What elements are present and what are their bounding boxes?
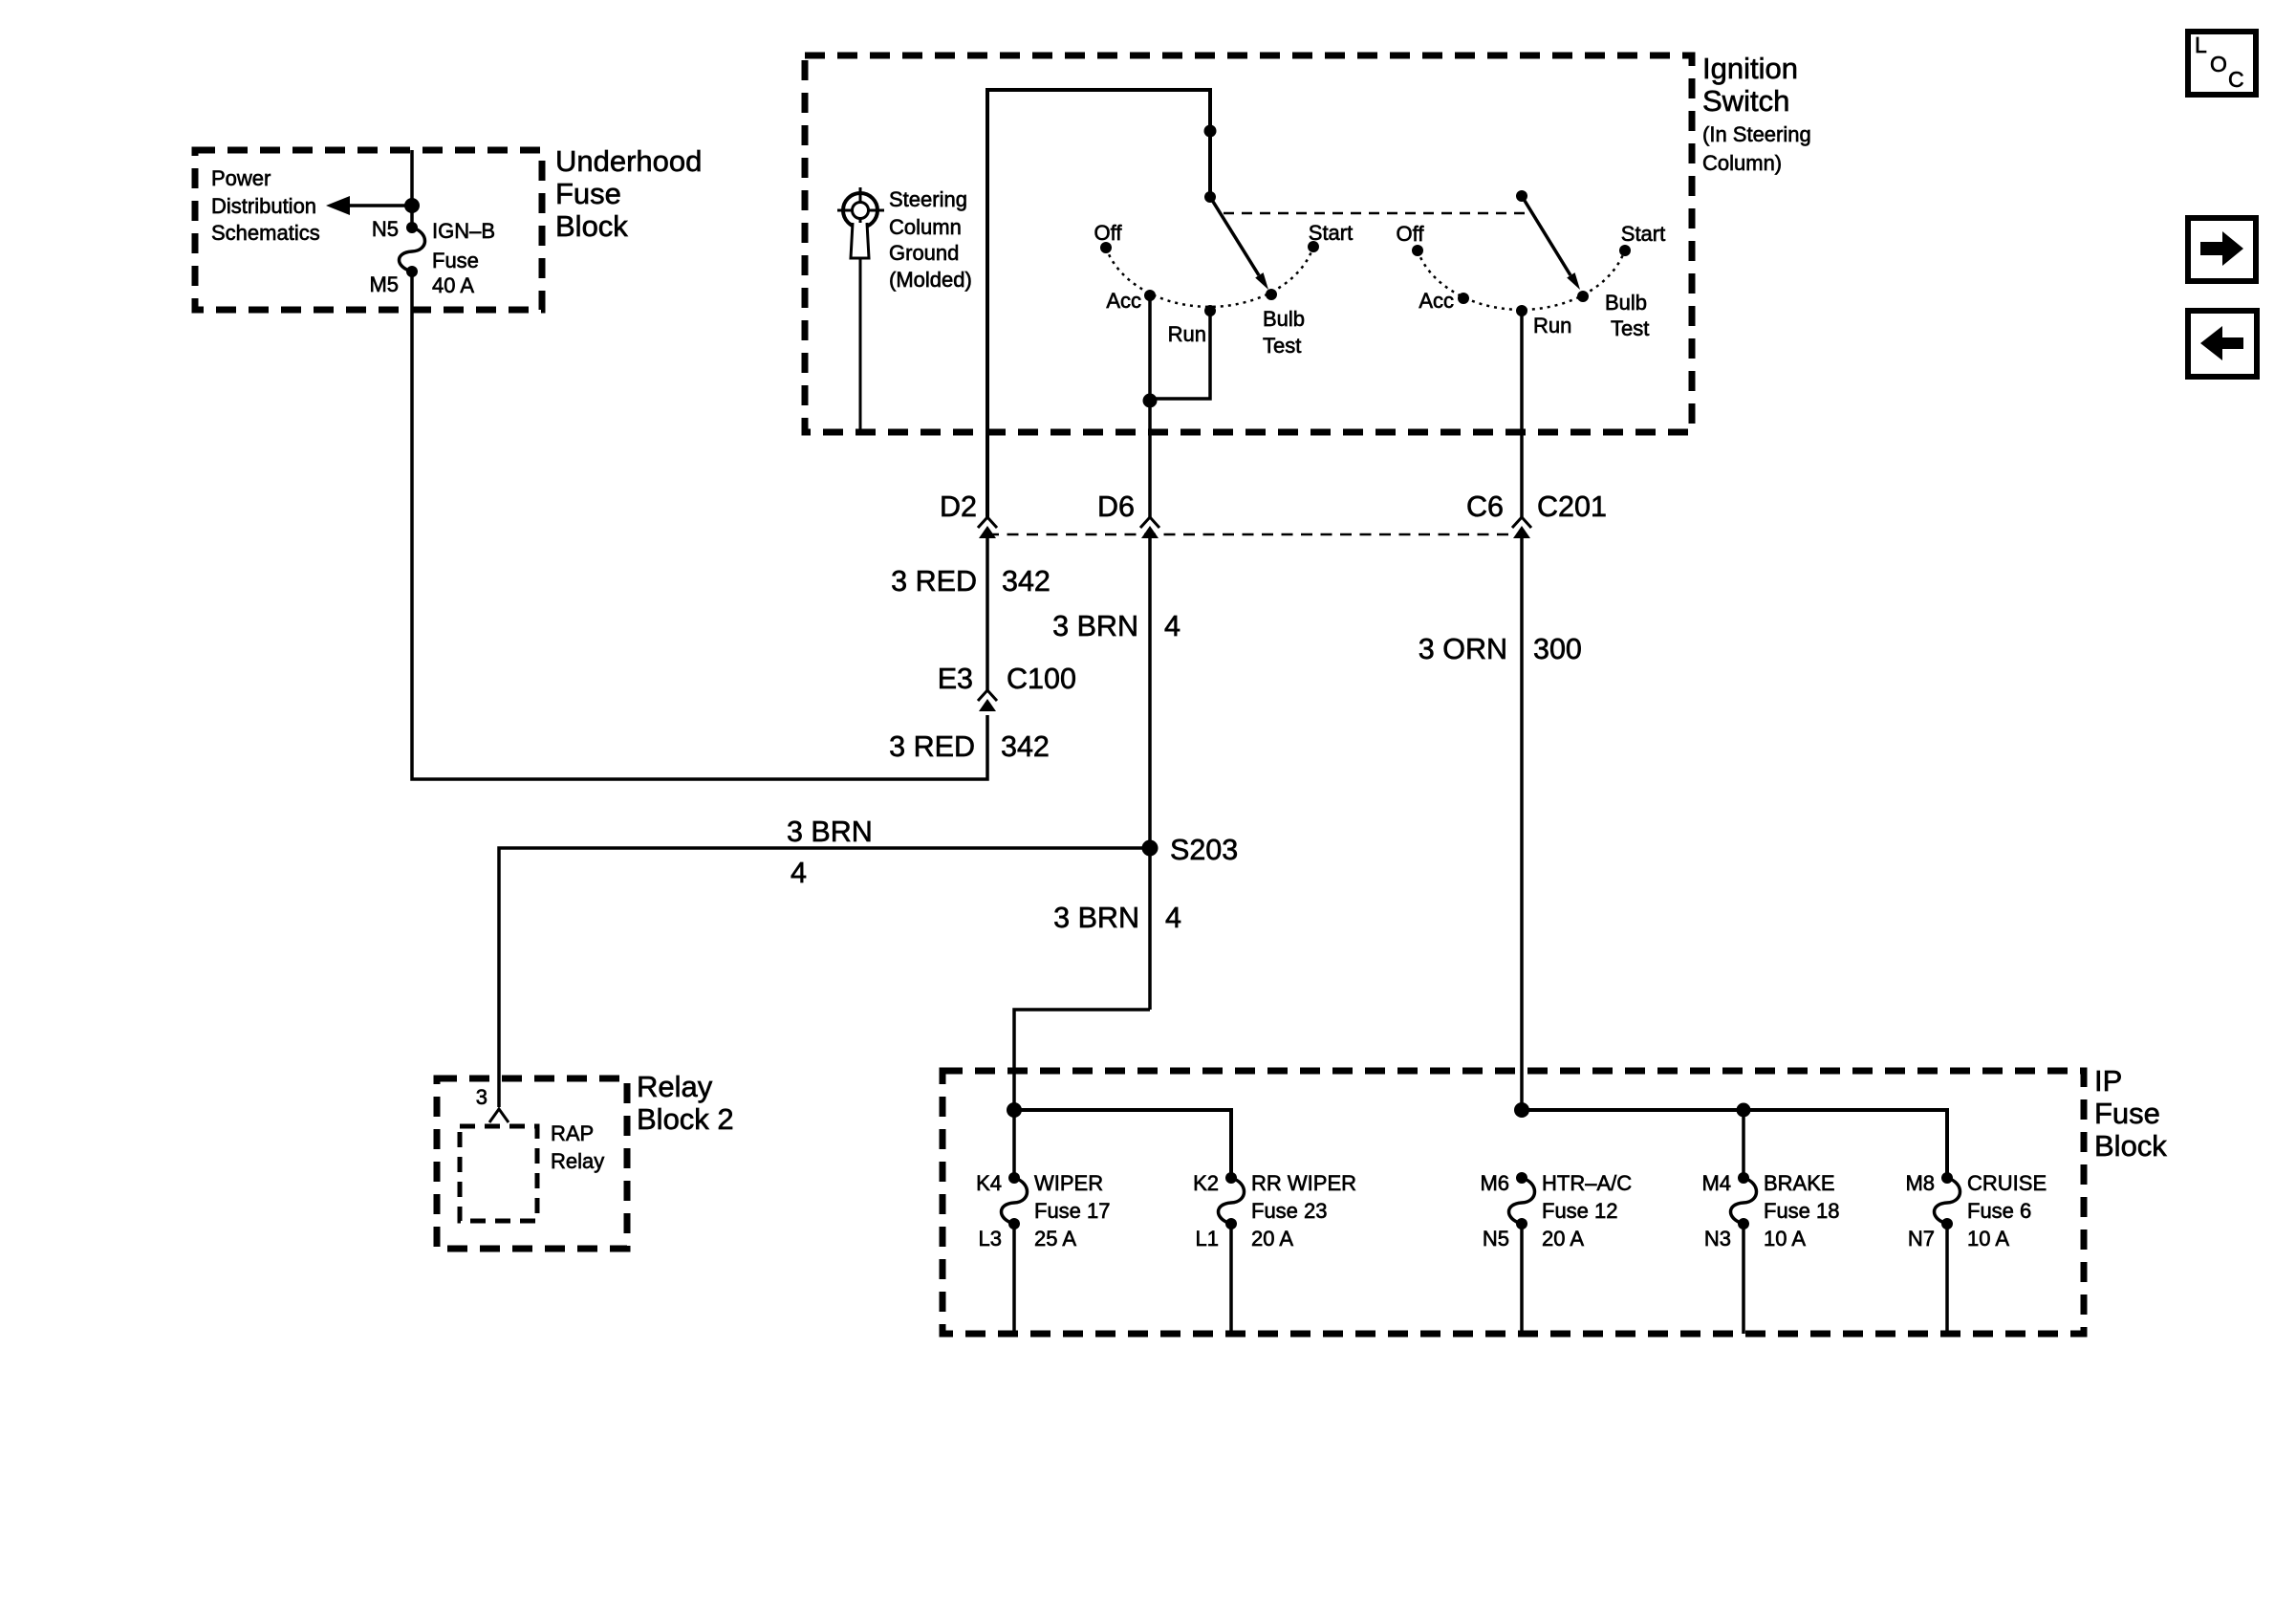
svg-text:10 A: 10 A <box>1967 1227 2009 1251</box>
switch 2 contact Off <box>1412 245 1423 256</box>
svg-text:(Molded): (Molded) <box>889 268 972 292</box>
connector separation line C201 (dashed) <box>987 533 1522 536</box>
svg-text:M5: M5 <box>369 272 399 296</box>
svg-text:O: O <box>2210 52 2227 76</box>
switch 1 contact Start <box>1308 241 1319 252</box>
svg-text:Schematics: Schematics <box>211 221 320 245</box>
svg-text:4: 4 <box>1164 610 1180 642</box>
svg-text:C: C <box>2228 67 2244 92</box>
svg-text:Fuse 17: Fuse 17 <box>1034 1199 1111 1223</box>
switch 2 movable arm with arrow to Bulb Test <box>1522 196 1570 275</box>
svg-text:RAP: RAP <box>551 1121 594 1145</box>
wire: D6 down to splice S203 <box>1148 537 1152 1010</box>
wire: HTR&#8211;A/C fuse output <box>1520 1224 1524 1334</box>
svg-text:10 A: 10 A <box>1764 1227 1806 1251</box>
svg-text:BRAKE: BRAKE <box>1764 1171 1835 1195</box>
svg-text:Block: Block <box>555 209 628 243</box>
svg-text:RR WIPER: RR WIPER <box>1251 1171 1356 1195</box>
svg-text:Fuse 12: Fuse 12 <box>1542 1199 1618 1223</box>
node: switch 1 pivot <box>1204 191 1216 203</box>
connector D2 at C201 <box>978 517 997 528</box>
fuse WIPER (K4-L3) <box>1002 1178 1028 1224</box>
svg-text:K4: K4 <box>976 1171 1002 1195</box>
mechanical link (dashed) between switch arms <box>1224 212 1529 215</box>
svg-text:40 A: 40 A <box>432 273 474 297</box>
svg-text:M6: M6 <box>1480 1171 1509 1195</box>
svg-text:N5: N5 <box>372 217 399 241</box>
svg-text:Relay: Relay <box>637 1070 713 1103</box>
connector E3 at C100 <box>978 690 997 701</box>
svg-text:N5: N5 <box>1483 1227 1509 1251</box>
Underhood Fuse Block (dashed outline) <box>195 150 542 310</box>
svg-text:Off: Off <box>1094 221 1123 245</box>
wire: Run contact of switch 2 down to C6 <box>1520 311 1524 517</box>
svg-text:342: 342 <box>1002 565 1051 598</box>
wire: feed down to WIPER fuse <box>1012 1110 1016 1178</box>
svg-text:Run: Run <box>1168 322 1206 346</box>
svg-text:Start: Start <box>1621 222 1665 246</box>
icon: back arrow box <box>2188 311 2257 377</box>
node: wire joint above switch 1 <box>1204 125 1217 138</box>
switch 2 contact Acc <box>1458 293 1469 304</box>
svg-text:Bulb: Bulb <box>1605 291 1647 315</box>
connector D6 at C201 <box>1140 517 1159 528</box>
wire: ignition feed from D2 up and over to switch pivot <box>987 90 1210 517</box>
svg-text:E3: E3 <box>938 663 973 695</box>
wire: Acc contact down to D6 <box>1148 295 1152 517</box>
svg-text:WIPER: WIPER <box>1034 1171 1103 1195</box>
Ignition Switch (dashed outline) <box>805 55 1692 432</box>
svg-text:Acc: Acc <box>1419 289 1454 313</box>
switch 1 position arc (dotted) <box>1106 247 1313 307</box>
svg-text:Block: Block <box>2094 1129 2167 1163</box>
connector: terminal 3 chevron <box>489 1109 509 1122</box>
svg-text:3 ORN: 3 ORN <box>1419 633 1507 665</box>
svg-text:C100: C100 <box>1007 663 1076 695</box>
svg-text:Ground: Ground <box>889 241 959 265</box>
switch 1 contact Bulb Test <box>1266 289 1277 300</box>
switch 2 contact Run <box>1516 305 1527 316</box>
fuse CRUISE (M8-N7) <box>1935 1178 1960 1224</box>
svg-text:Fuse: Fuse <box>555 177 621 210</box>
wire: S203 jog down to IP fuse block <box>1014 1010 1150 1110</box>
svg-text:L1: L1 <box>1196 1227 1219 1251</box>
svg-text:300: 300 <box>1533 633 1582 665</box>
bus: ORN feed to HTR-A/C, BRAKE, CRUISE fuses <box>1522 1110 1947 1178</box>
svg-text:Distribution: Distribution <box>211 194 316 218</box>
switch 2 pivot <box>1516 190 1527 202</box>
svg-text:3 BRN: 3 BRN <box>1053 902 1139 934</box>
svg-text:3 BRN: 3 BRN <box>1052 610 1138 642</box>
svg-text:C6: C6 <box>1466 490 1504 523</box>
svg-text:Fuse 23: Fuse 23 <box>1251 1199 1328 1223</box>
wire: M5 output down, across, up to C100 connector <box>412 272 987 779</box>
wire: 3 BRN branch to Relay Block 2 <box>499 848 1150 1107</box>
switch 1 contact Run <box>1204 305 1216 316</box>
node: junction at arrow tap <box>404 198 420 213</box>
svg-text:M4: M4 <box>1701 1171 1731 1195</box>
node: junction at HTR-A/C feed <box>1514 1102 1529 1118</box>
svg-text:L3: L3 <box>979 1227 1002 1251</box>
wire: Run contact jog joining Acc wire <box>1150 311 1210 399</box>
svg-text:Run: Run <box>1533 314 1571 337</box>
svg-text:Power: Power <box>211 166 271 190</box>
svg-text:Test: Test <box>1263 334 1301 358</box>
svg-text:N3: N3 <box>1704 1227 1731 1251</box>
svg-text:20 A: 20 A <box>1542 1227 1584 1251</box>
IP Fuse Block (dashed outline) <box>942 1071 2084 1334</box>
svg-text:C201: C201 <box>1537 490 1607 523</box>
svg-text:L: L <box>2195 33 2207 57</box>
switch 1 contact Acc <box>1144 290 1156 301</box>
svg-text:Column): Column) <box>1702 151 1782 175</box>
svg-text:Off: Off <box>1397 222 1425 246</box>
fuse IGN-B 40 A (N5-M5) <box>400 228 425 272</box>
switch 1 movable arm with arrow to Bulb Test <box>1210 197 1259 275</box>
svg-text:20 A: 20 A <box>1251 1227 1293 1251</box>
svg-text:HTR–A/C: HTR–A/C <box>1542 1171 1632 1195</box>
wire: feed from top into fuse block <box>410 150 414 228</box>
svg-text:D6: D6 <box>1097 490 1135 523</box>
bus: BRN feed to WIPER and RR WIPER fuses <box>1014 1110 1231 1178</box>
icon: forward arrow box <box>2188 218 2256 281</box>
RAP Relay cavity (inner dashed outline) <box>460 1126 537 1221</box>
svg-text:Block 2: Block 2 <box>637 1102 734 1136</box>
node: junction at WIPER feed <box>1007 1102 1022 1118</box>
switch 1 contact Off <box>1100 242 1112 253</box>
svg-text:M8: M8 <box>1905 1171 1935 1195</box>
wire: C6 down to IP fuse block <box>1520 537 1524 1110</box>
svg-text:Underhood: Underhood <box>555 144 702 178</box>
wire: feed down to BRAKE fuse <box>1742 1110 1745 1178</box>
svg-text:Ignition: Ignition <box>1702 52 1798 85</box>
svg-text:(In Steering: (In Steering <box>1702 122 1811 146</box>
wire: WIPER fuse output <box>1012 1224 1016 1334</box>
Relay Block 2 (dashed outline) <box>437 1078 627 1249</box>
splice S203 <box>1142 840 1159 857</box>
svg-text:3: 3 <box>476 1085 487 1109</box>
svg-text:IGN–B: IGN–B <box>432 219 495 243</box>
svg-text:N7: N7 <box>1908 1227 1935 1251</box>
svg-text:S203: S203 <box>1170 834 1238 866</box>
svg-text:25 A: 25 A <box>1034 1227 1076 1251</box>
switch 2 position arc (dotted) <box>1418 250 1625 310</box>
node: junction at BRAKE feed <box>1737 1103 1751 1118</box>
switch 2 contact Bulb Test <box>1577 291 1589 302</box>
svg-text:4: 4 <box>1165 902 1181 934</box>
connector C6 at C201 <box>1512 517 1531 528</box>
node: junction of Run jog on Acc wire <box>1143 394 1158 408</box>
svg-text:CRUISE: CRUISE <box>1967 1171 2047 1195</box>
switch 2 contact Start <box>1619 245 1631 256</box>
svg-text:IP: IP <box>2094 1064 2122 1098</box>
fuse HTR&#8211;A/C (M6-N5) <box>1509 1178 1535 1224</box>
svg-text:Fuse 18: Fuse 18 <box>1764 1199 1840 1223</box>
svg-text:Acc: Acc <box>1106 289 1141 313</box>
wire: D2 to C100 connector <box>986 537 989 690</box>
svg-text:Fuse: Fuse <box>432 249 479 272</box>
steering column ground (molded) ring terminal <box>843 193 877 228</box>
svg-text:Steering: Steering <box>889 187 967 211</box>
svg-text:Fuse 6: Fuse 6 <box>1967 1199 2031 1223</box>
icon: LOC box <box>2188 32 2256 95</box>
arrow to Power Distribution Schematics <box>346 204 412 207</box>
svg-text:Column: Column <box>889 215 962 239</box>
svg-text:3 RED: 3 RED <box>891 565 977 598</box>
svg-text:D2: D2 <box>940 490 977 523</box>
svg-text:Fuse: Fuse <box>2094 1097 2160 1130</box>
fuse BRAKE (M4-N3) <box>1731 1178 1757 1224</box>
wire: ground lead down to box edge <box>859 258 862 430</box>
fuse RR WIPER (K2-L1) <box>1219 1178 1245 1224</box>
wire: CRUISE fuse output <box>1945 1224 1949 1334</box>
svg-text:Test: Test <box>1611 316 1649 340</box>
wire: RR WIPER fuse output <box>1229 1224 1233 1334</box>
svg-text:Relay: Relay <box>551 1149 604 1173</box>
svg-text:4: 4 <box>791 857 807 889</box>
svg-text:Start: Start <box>1309 221 1353 245</box>
svg-text:Switch: Switch <box>1702 84 1789 118</box>
wire: BRAKE fuse output <box>1742 1224 1745 1334</box>
svg-text:342: 342 <box>1001 730 1050 763</box>
svg-text:3 RED: 3 RED <box>889 730 975 763</box>
svg-text:K2: K2 <box>1193 1171 1219 1195</box>
svg-text:3 BRN: 3 BRN <box>787 816 873 848</box>
svg-text:Bulb: Bulb <box>1263 307 1305 331</box>
